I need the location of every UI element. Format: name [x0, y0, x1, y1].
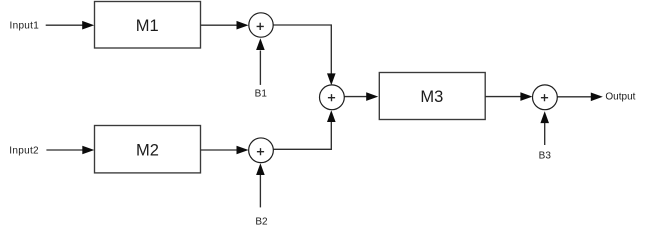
- svg-text:Output: Output: [605, 91, 635, 102]
- svg-text:B3: B3: [539, 151, 552, 162]
- svg-text:B1: B1: [255, 89, 268, 100]
- svg-text:Input1: Input1: [10, 21, 40, 32]
- svg-text:M2: M2: [136, 141, 159, 159]
- svg-text:Input2: Input2: [9, 145, 39, 156]
- svg-text:B2: B2: [255, 217, 268, 228]
- svg-text:M3: M3: [420, 88, 443, 106]
- svg-text:M1: M1: [136, 17, 159, 35]
